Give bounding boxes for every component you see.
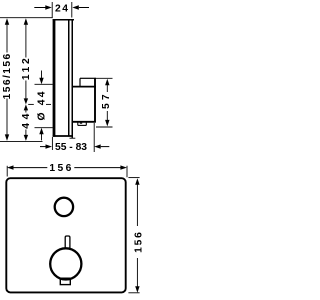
dim 55-83	[40, 142, 109, 153]
svg-text:55 - 83: 55 - 83	[55, 142, 87, 153]
svg-text:112: 112	[21, 56, 32, 80]
ext line plate bottom	[0, 140, 43, 142]
svg-text:57: 57	[101, 91, 112, 109]
thermostat knob	[50, 248, 81, 279]
dim 156 top	[7, 163, 127, 174]
dim 156/156	[2, 18, 13, 141]
plate side view	[53, 19, 76, 138]
dim D44 ext bottom	[35, 127, 53, 129]
valve main box	[72, 78, 96, 122]
dim 156 right ext top	[128, 177, 139, 179]
dim 55-83 ext right	[93, 123, 95, 152]
svg-text:156: 156	[49, 163, 73, 174]
dim D44 ext top	[35, 83, 53, 85]
dim 24 ext line right	[71, 2, 73, 18]
dim 156 top ext right	[126, 166, 128, 177]
dim 57	[101, 79, 112, 127]
svg-text:156: 156	[133, 230, 144, 253]
dim 55-83 ext left	[51, 137, 53, 150]
ext line plate top	[0, 17, 53, 19]
dim 57 ext bottom	[96, 126, 113, 128]
svg-text:44: 44	[21, 110, 32, 129]
center line dashes at knob axis	[28, 103, 34, 105]
front plate square	[6, 178, 125, 292]
dim 24 ext line left	[51, 2, 53, 18]
dim 156 right	[133, 178, 144, 293]
valve top step	[80, 78, 96, 87]
dim 24 line right	[72, 5, 89, 9]
dim 156 right ext bottom	[128, 292, 139, 294]
dim 24 line left	[34, 5, 52, 9]
dim 112	[21, 18, 32, 104]
svg-text:Ø 44: Ø 44	[37, 89, 48, 120]
select button ring	[55, 198, 73, 216]
dim 57 ext top	[95, 77, 113, 79]
svg-text:156/156: 156/156	[2, 52, 13, 99]
valve bottom tab	[78, 122, 87, 126]
dim 156 top ext left	[6, 166, 8, 177]
dim D44	[37, 71, 48, 141]
svg-text:24: 24	[55, 3, 70, 14]
knob bottom notch	[60, 278, 70, 284]
dim 44 left	[21, 104, 32, 140]
knob top tab	[65, 236, 70, 249]
